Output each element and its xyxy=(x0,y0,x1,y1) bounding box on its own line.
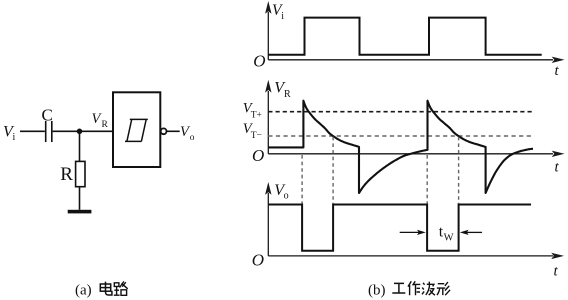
svg-text:(a): (a) xyxy=(75,283,92,299)
svg-text:C: C xyxy=(42,105,53,124)
svg-text:T−: T− xyxy=(251,131,262,141)
svg-text:R: R xyxy=(102,120,109,130)
svg-text:(b): (b) xyxy=(368,283,386,299)
svg-text:O: O xyxy=(252,146,264,165)
svg-text:O: O xyxy=(253,52,265,71)
svg-text:R: R xyxy=(60,164,73,185)
svg-text:o: o xyxy=(190,133,195,143)
svg-text:i: i xyxy=(13,132,16,143)
svg-text:W: W xyxy=(444,233,454,244)
svg-text:R: R xyxy=(284,89,291,100)
svg-text:i: i xyxy=(281,11,284,22)
svg-text:o: o xyxy=(284,191,289,202)
svg-text:O: O xyxy=(252,251,264,270)
svg-text:T+: T+ xyxy=(251,111,262,121)
